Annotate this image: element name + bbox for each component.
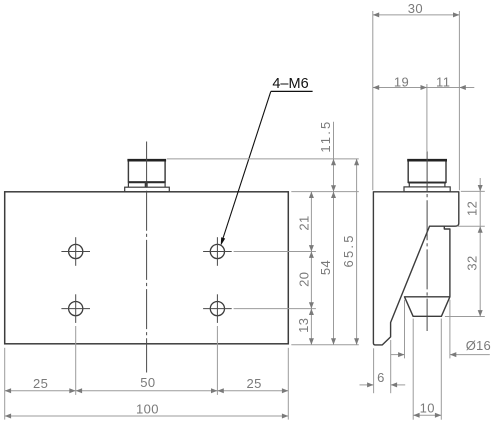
- front view: M6 hole bottom-left: [69, 302, 83, 316]
- side view: body outline: [373, 192, 458, 345]
- label 4-M6 leader arrowhead: [221, 237, 226, 245]
- svg-text:100: 100: [136, 402, 159, 417]
- extension line: center (19/11) down to knob: [426, 84, 428, 152]
- front view: knob cap thick top edge: [127, 159, 166, 162]
- extension line: foot left (6): [373, 348, 375, 393]
- dimension line: 65.5 column: [356, 159, 358, 345]
- extension line: plate bottom-left corner down: [4, 348, 6, 420]
- front view: knob neck sides: [127, 182, 129, 187]
- front view: hole bottom-left crosshair: [61, 308, 90, 310]
- extension line: side left edge up (30/19): [372, 11, 374, 190]
- svg-text:10: 10: [420, 401, 435, 416]
- extension line: lower hole row right (20/13): [234, 308, 316, 310]
- extension line: knob top level (11.5/65.5): [167, 158, 359, 160]
- extension line: slant base (6): [390, 340, 392, 393]
- front view: hole top-left crosshair: [61, 251, 90, 253]
- svg-text:4–M6: 4–M6: [272, 76, 308, 92]
- dimension line: 21/20/13 column: [310, 192, 312, 345]
- extension line: plate bottom right (13/54/65.5): [291, 344, 359, 346]
- dimension line: 19/11 row: [373, 87, 475, 89]
- front view: M6 hole bottom-right: [210, 302, 224, 316]
- label 4-M6 underline: [271, 90, 313, 92]
- extension line: side right edge up (30/11): [458, 11, 460, 190]
- dimension line: 30 row: [373, 14, 460, 16]
- dimension line: 12/32 column: [479, 178, 481, 317]
- front view: knob flange: [125, 187, 170, 192]
- extension line: boss bottom right (32): [445, 316, 485, 318]
- svg-text:6: 6: [377, 370, 385, 385]
- svg-text:Ø16: Ø16: [466, 338, 491, 353]
- extension line: boss left (dia 16): [404, 300, 406, 359]
- front view: hole bottom-right crosshair: [203, 308, 232, 310]
- side view: vertical centerline: [426, 151, 428, 331]
- svg-text:21: 21: [296, 215, 311, 230]
- front view: plate outline: [5, 192, 289, 344]
- svg-text:19: 19: [394, 75, 409, 90]
- dimension line: 25/50/25 row: [5, 390, 289, 392]
- dimension line: dia 16 with outside arrows: [391, 354, 405, 356]
- extension line: shoulder step right (12/32): [457, 225, 485, 227]
- extension line: plate bottom-right corner down: [287, 348, 289, 420]
- dimension line: 100 row: [5, 415, 289, 417]
- front view: hole top-right crosshair: [203, 251, 232, 253]
- side view: knob neck sides: [408, 182, 410, 187]
- svg-text:11.5: 11.5: [318, 120, 333, 153]
- extension line: upper hole row right (21/20): [234, 251, 316, 253]
- extension line: plate top right (21/54): [291, 191, 359, 193]
- dimension line: 54 and 11.5 column: [333, 122, 335, 345]
- side view: knob cap thick top edge: [407, 159, 447, 162]
- label 4-M6 leader line: [222, 91, 271, 242]
- dimension line: 10 row: [413, 414, 441, 416]
- side view: knob flange: [404, 187, 450, 192]
- front view: M6 hole top-left: [69, 244, 83, 258]
- side view: step and clamp boss outline: [405, 226, 450, 316]
- svg-text:13: 13: [296, 318, 311, 333]
- extension line: right hole column down: [216, 326, 218, 395]
- side view: knob cap: [408, 160, 446, 183]
- svg-text:20: 20: [296, 272, 311, 287]
- svg-text:11: 11: [436, 75, 450, 90]
- svg-text:50: 50: [140, 375, 155, 390]
- front view: clamp knob cap: [128, 160, 165, 182]
- front view: M6 hole top-right: [210, 244, 224, 258]
- front view: knob neck dark center dash: [145, 182, 148, 187]
- front view: knob cap bottom edge: [128, 181, 165, 183]
- svg-text:25: 25: [246, 376, 261, 391]
- svg-text:32: 32: [464, 255, 479, 270]
- extension line: body top right (12): [461, 190, 485, 192]
- dimension line: 6 with outside arrows: [360, 384, 374, 386]
- side view: knob cap bottom edge: [408, 182, 446, 184]
- extension line: boss tip right (10): [440, 319, 442, 420]
- svg-text:25: 25: [33, 376, 48, 391]
- svg-text:12: 12: [464, 201, 479, 216]
- svg-text:54: 54: [318, 260, 333, 275]
- extension line: boss tip left (10): [412, 319, 414, 420]
- extension line: boss right (dia 16): [449, 300, 451, 359]
- svg-text:30: 30: [408, 1, 423, 16]
- front view: vertical centerline: [146, 142, 148, 373]
- extension line: left hole column down: [75, 326, 77, 395]
- svg-text:65.5: 65.5: [341, 233, 356, 267]
